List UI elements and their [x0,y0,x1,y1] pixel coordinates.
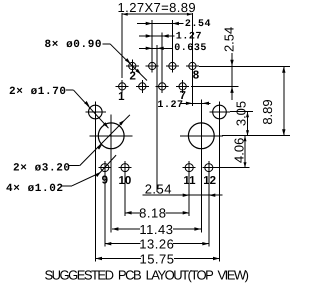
svg-text:4.06: 4.06 [232,138,247,163]
svg-text:3.05: 3.05 [233,101,248,126]
svg-text:1: 1 [118,91,125,103]
svg-text:2: 2 [129,70,135,82]
svg-text:9: 9 [102,174,108,186]
svg-text:15.75: 15.75 [139,251,174,266]
svg-text:2.54: 2.54 [221,27,236,52]
svg-text:2.54: 2.54 [145,181,172,196]
svg-text:11.43: 11.43 [139,222,173,237]
svg-text:10: 10 [119,175,132,187]
svg-text:2.54: 2.54 [185,19,211,30]
svg-text:11: 11 [183,175,196,187]
svg-text:8: 8 [193,69,200,81]
svg-text:8.18: 8.18 [139,206,166,221]
svg-text:13.26: 13.26 [139,237,174,252]
svg-text:1.27X7=8.89: 1.27X7=8.89 [118,0,197,15]
svg-text:SUGGESTED PCB LAYOUT(TOP VIEW): SUGGESTED PCB LAYOUT(TOP VIEW) [45,268,249,283]
svg-text:4× ø1.02: 4× ø1.02 [6,183,64,195]
svg-text:8× ø0.90: 8× ø0.90 [45,39,103,51]
svg-text:0.635: 0.635 [174,43,207,54]
svg-text:1.27: 1.27 [176,32,202,43]
svg-text:2× ø3.20: 2× ø3.20 [13,162,71,174]
svg-text:12: 12 [203,175,216,187]
svg-text:8.89: 8.89 [260,99,275,124]
svg-text:7: 7 [179,90,185,102]
svg-text:2× ø1.70: 2× ø1.70 [9,86,67,98]
